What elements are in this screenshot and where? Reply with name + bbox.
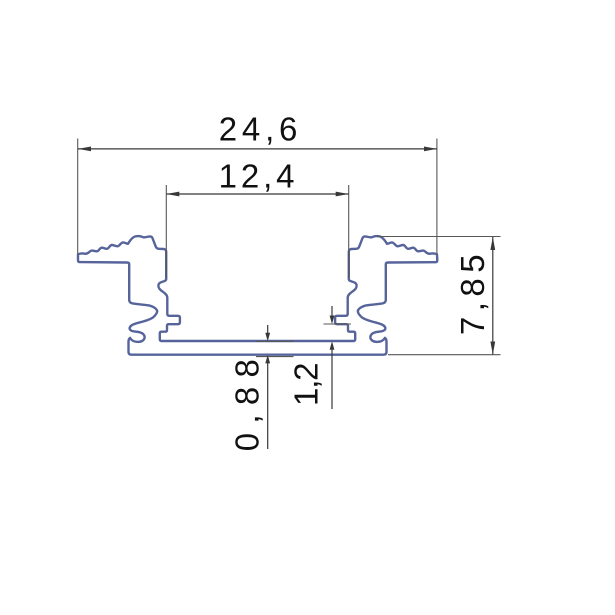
extension line left of 24,6	[77, 139, 79, 255]
aluminium profile cross-section outline	[78, 236, 437, 355]
dimension 0,88 upper arrow	[267, 325, 269, 333]
svg-text:24,6: 24,6	[219, 111, 302, 148]
dimension line 24,6	[78, 148, 437, 150]
extension dash upper of 0,88	[256, 340, 294, 342]
dimension 1,2 upper arrow	[331, 306, 333, 316]
svg-text:0,88: 0,88	[229, 350, 266, 451]
extension dash lower of 0,88	[256, 356, 294, 358]
extension line right of 12,4	[348, 185, 350, 278]
extension line top of 7,85	[377, 236, 501, 238]
dimension 0,88 lower arrow and leader	[265, 355, 270, 364]
extension line bottom of 7,85	[388, 354, 501, 356]
extension line left of 12,4	[165, 185, 167, 278]
extension line right of 24,6	[436, 139, 438, 255]
dimension line 7,85	[492, 237, 494, 355]
svg-text:1,2: 1,2	[288, 364, 325, 406]
dimension 1,2 lower arrow and leader	[330, 341, 335, 350]
dimension line 12,4	[166, 193, 348, 195]
svg-text:7,85: 7,85	[454, 249, 491, 335]
svg-text:12,4: 12,4	[219, 158, 299, 195]
extension dash of 1,2 at tab bottom	[324, 323, 352, 325]
